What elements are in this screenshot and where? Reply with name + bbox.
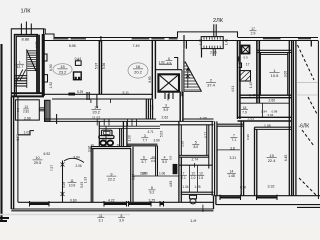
svg-text:2.1: 2.1 — [181, 176, 186, 180]
svg-text:2ЛК: 2ЛК — [213, 18, 224, 24]
svg-text:3.65: 3.65 — [283, 71, 287, 78]
window ticks on 1LK bay top — [21, 22, 31, 35]
svg-text:37.4: 37.4 — [207, 83, 216, 88]
svg-text:0.60: 0.60 — [70, 198, 77, 202]
stair bay 1LK jog to main wall — [44, 29, 55, 38]
svg-text:8.84: 8.84 — [74, 155, 80, 159]
svg-text:17: 17 — [251, 27, 255, 31]
svg-text:5.9: 5.9 — [164, 108, 169, 112]
room 15 ellipse — [53, 64, 72, 75]
svg-text:9.2: 9.2 — [150, 191, 155, 195]
bottom right window b — [257, 196, 278, 198]
bay room label — [15, 61, 24, 70]
room 19 top wall — [255, 127, 292, 129]
svg-text:1.0: 1.0 — [150, 105, 154, 110]
svg-text:14: 14 — [94, 106, 98, 110]
room 19 left wall — [255, 127, 257, 196]
svg-text:8: 8 — [121, 214, 123, 218]
svg-text:2.74: 2.74 — [192, 158, 199, 162]
svg-text:6.7: 6.7 — [142, 160, 147, 164]
bathroom east wall — [123, 121, 127, 146]
svg-text:10: 10 — [91, 143, 95, 147]
wc cell dividers — [190, 165, 198, 192]
dashed diagonal neighbour 2 — [308, 97, 317, 114]
stair bay 1LK right wall — [37, 35, 39, 93]
bathroom west wall — [98, 121, 100, 146]
scan edge artifact left — [0, 44, 2, 222]
tiny 10-0.9 — [150, 155, 156, 163]
room 14 label — [91, 106, 101, 115]
room 1 label — [269, 68, 279, 78]
elevator hall dim line — [159, 63, 172, 65]
block left wall — [179, 121, 181, 202]
scan artifact bottom-left corner — [0, 218, 9, 221]
svg-text:0.9: 0.9 — [151, 159, 156, 163]
col room 7.1 label — [230, 134, 237, 143]
building interior east wall — [289, 41, 291, 196]
stair 1LK lower flight treads — [15, 76, 27, 86]
svg-text:7.9: 7.9 — [242, 110, 247, 114]
room 4 label — [161, 156, 168, 165]
room 16 ellipse — [128, 63, 148, 78]
svg-text:5.97: 5.97 — [94, 63, 98, 70]
svg-text:5.98: 5.98 — [69, 44, 76, 48]
svg-text:0.47: 0.47 — [249, 94, 256, 98]
stair bay 1LK inner thick walls — [15, 35, 39, 96]
svg-text:0.9: 0.9 — [168, 156, 172, 161]
vestibule lower ticks — [213, 49, 215, 56]
main stair treads — [185, 63, 201, 90]
svg-text:3.75: 3.75 — [149, 198, 156, 202]
wc 13 label — [198, 172, 205, 180]
stair bay inner wall top — [184, 35, 202, 58]
bottom wall left span outer — [11, 209, 213, 211]
rooms 4-5 block top wall — [160, 124, 214, 126]
neighbour right edge line — [317, 41, 319, 200]
window midlines white — [53, 38, 311, 40]
svg-text:1: 1 — [19, 61, 21, 65]
room 9 left wall — [91, 147, 93, 203]
room 15 label — [57, 64, 67, 74]
small box 2 in room 15 — [74, 72, 82, 80]
small box in room 15 — [75, 61, 81, 66]
svg-text:1.92: 1.92 — [159, 61, 165, 65]
svg-text:3.32: 3.32 — [268, 184, 275, 188]
stair bay 1LK outer thin outline — [11, 29, 43, 97]
room 10 label — [33, 156, 43, 165]
svg-text:0.80: 0.80 — [16, 134, 20, 140]
bottom wall window ticks — [30, 201, 164, 207]
bottom wall left span inner — [18, 201, 214, 203]
svg-text:6.92: 6.92 — [44, 152, 51, 156]
svg-text:1.25: 1.25 — [194, 185, 200, 189]
svg-text:1.45: 1.45 — [249, 82, 253, 88]
dashed diagonal neighbour 4 — [299, 178, 317, 196]
svg-text:4.20: 4.20 — [200, 116, 207, 120]
dashed diagonal neighbour 1 — [298, 45, 315, 80]
door tick col17 — [239, 57, 242, 68]
bathroom mid divider — [105, 126, 107, 146]
middle column partition — [217, 149, 240, 151]
door arc room 10 — [64, 158, 84, 162]
top wall window 2 — [71, 38, 86, 41]
main wing left wall pair — [43, 34, 45, 96]
room 7.7 label — [141, 134, 148, 143]
hatched shaft left corridor — [45, 100, 51, 121]
svg-text:6.45: 6.45 — [284, 155, 288, 162]
stair 1LK break marks — [17, 70, 26, 81]
top wall window 6 — [263, 38, 280, 41]
svg-text:4.91: 4.91 — [231, 86, 235, 92]
top wall window 7 — [298, 38, 311, 41]
bottom wall window d — [160, 203, 164, 205]
bottom right window ticks — [220, 195, 277, 200]
bathroom door ticks — [128, 119, 137, 127]
room 16 right wall — [152, 41, 155, 99]
bath row bottom wall — [238, 117, 292, 121]
wc cells top wall — [179, 164, 212, 166]
svg-text:12.7: 12.7 — [16, 65, 23, 69]
svg-text:29.5: 29.5 — [34, 161, 41, 165]
room 2 right wall — [238, 41, 240, 120]
svg-text:3.8: 3.8 — [230, 146, 235, 150]
hall frac — [166, 57, 173, 65]
svg-text:3: 3 — [144, 134, 146, 138]
top wall tick at room divider — [100, 36, 102, 42]
stair 1LK upper flight treads — [27, 51, 36, 71]
svg-text:0.90: 0.90 — [240, 185, 246, 189]
corridor south wall lines — [44, 119, 160, 121]
bottom wall right span outer — [216, 205, 320, 208]
svg-text:17: 17 — [246, 63, 250, 67]
middle column top wall — [217, 124, 244, 126]
elevator shaft 2LK — [158, 74, 179, 91]
svg-text:10.9: 10.9 — [69, 183, 76, 187]
toilet small bowl — [190, 199, 196, 204]
room 1 bottom wall — [240, 95, 292, 98]
room 15 / room 16 divider wall — [99, 41, 101, 95]
svg-text:2.9: 2.9 — [251, 32, 256, 36]
room B (small room under bay) — [15, 100, 39, 120]
svg-text:1ЛК: 1ЛК — [21, 9, 32, 15]
left wall inner line — [17, 97, 19, 202]
svg-text:8.86: 8.86 — [22, 36, 31, 41]
svg-text:1.94: 1.94 — [261, 110, 267, 114]
wc top tick — [194, 163, 196, 168]
toilet small cistern — [190, 195, 197, 199]
room 3 bottom wall — [127, 144, 158, 146]
svg-text:-6ЛК: -6ЛК — [299, 124, 310, 130]
svg-text:0.44: 0.44 — [75, 57, 82, 61]
main stair 2LK left edge — [183, 49, 185, 92]
col room 1.48 label — [227, 170, 236, 179]
svg-text:2.00: 2.00 — [142, 171, 148, 175]
main top wall lower line — [44, 40, 318, 42]
wc 7 label — [180, 172, 187, 180]
corridor-east wall jog — [146, 99, 152, 119]
svg-text:3.28: 3.28 — [62, 182, 66, 188]
room 19 col left wall — [241, 121, 243, 196]
svg-text:1.02: 1.02 — [24, 131, 31, 135]
svg-text:2.62: 2.62 — [162, 115, 169, 119]
svg-text:20.2: 20.2 — [134, 69, 143, 74]
svg-text:2.60: 2.60 — [269, 99, 276, 103]
elevator 17 shaft box — [242, 46, 250, 54]
svg-text:4.83: 4.83 — [169, 181, 173, 187]
svg-text:11.97: 11.97 — [92, 116, 100, 120]
svg-text:3.90: 3.90 — [154, 139, 160, 143]
svg-text:1-Н: 1-Н — [190, 218, 197, 223]
svg-text:4.22: 4.22 — [108, 198, 115, 202]
door tick x168 — [167, 94, 169, 101]
wc 12 label — [190, 172, 197, 180]
svg-text:7.1: 7.1 — [232, 138, 237, 142]
svg-text:8.0: 8.0 — [193, 145, 198, 149]
svg-text:4.71: 4.71 — [148, 130, 154, 134]
middle column inner outline — [216, 126, 218, 196]
svg-text:18: 18 — [243, 106, 247, 110]
svg-text:3.21: 3.21 — [230, 156, 237, 160]
svg-text:22.2: 22.2 — [108, 177, 115, 181]
svg-text:10: 10 — [35, 156, 39, 160]
room 1 inner outline — [260, 53, 287, 96]
main bath toilet cistern — [102, 130, 113, 135]
bottom wall window c — [129, 203, 152, 205]
main stair diagonal — [185, 62, 202, 92]
svg-text:6: 6 — [143, 156, 145, 160]
wet cell east wall — [120, 128, 122, 146]
bottom right window a — [220, 196, 241, 198]
svg-text:1.30: 1.30 — [199, 39, 203, 45]
room 6/4 divider — [156, 146, 158, 176]
corridor north wall line L1 — [44, 93, 152, 95]
svg-text:3.26: 3.26 — [181, 141, 185, 147]
room 19 label — [267, 153, 277, 163]
room 15 west wall niche upper — [44, 54, 47, 61]
bottom wall right span inner — [214, 195, 320, 197]
room 18 label — [241, 106, 248, 115]
svg-text:1.52: 1.52 — [49, 82, 53, 89]
svg-text:8: 8 — [151, 186, 153, 190]
room 6 label — [140, 156, 147, 165]
room B frac — [23, 105, 29, 113]
bottom wall step — [214, 196, 216, 209]
balcony 11 label — [97, 214, 104, 223]
svg-text:6.93: 6.93 — [49, 64, 53, 71]
room 11 label — [68, 179, 77, 188]
bath row divider under room1 — [240, 102, 289, 104]
svg-text:14: 14 — [230, 170, 234, 174]
svg-text:0.9: 0.9 — [16, 108, 20, 113]
unit leader line 1-N — [202, 205, 204, 212]
door hatch right of room B — [39, 108, 45, 111]
bottom wall window a — [30, 203, 50, 205]
main bath twin basin — [100, 141, 106, 146]
room 1 top wall — [257, 50, 292, 52]
2LK vestibule rect with comb ticks — [201, 37, 223, 49]
svg-text:5.36: 5.36 — [102, 63, 106, 70]
bathroom north wall — [99, 126, 160, 128]
svg-text:9.76: 9.76 — [35, 41, 39, 48]
stair bay 2LK thin outline — [178, 32, 238, 38]
room 9 top wall — [91, 147, 131, 149]
svg-text:7: 7 — [233, 134, 235, 138]
stair bay 1LK bottom wall — [11, 93, 44, 96]
room 3 label — [162, 104, 169, 112]
dark lintel block on L1 — [68, 93, 75, 96]
svg-text:5.0: 5.0 — [162, 160, 167, 164]
stair 1LK mid divider — [26, 50, 28, 89]
svg-text:23.2: 23.2 — [59, 69, 68, 74]
room 8 top line — [133, 175, 179, 177]
svg-text:3.27: 3.27 — [131, 174, 135, 180]
room 2 left wall — [180, 92, 183, 122]
room 10 partition with door marks — [62, 161, 64, 203]
wall right of shaft 17 — [257, 41, 259, 104]
svg-text:3.04: 3.04 — [268, 113, 274, 117]
room 2 bottom wall — [160, 119, 214, 121]
middle column room walls — [212, 121, 217, 195]
building outer east wall — [293, 41, 296, 196]
svg-text:7.7: 7.7 — [142, 139, 147, 143]
svg-text:1.34: 1.34 — [182, 185, 188, 189]
door frame ticks on corridor north wall — [87, 92, 97, 108]
svg-text:1.40: 1.40 — [224, 39, 228, 45]
svg-text:8.85: 8.85 — [148, 76, 152, 82]
room 5 bottom wall — [179, 155, 209, 157]
top wall window 3 — [132, 38, 150, 41]
room 5 rect — [181, 125, 209, 169]
hatched duct box — [240, 71, 251, 81]
bottom wall window b — [104, 203, 127, 205]
svg-text:1.48: 1.48 — [228, 174, 235, 178]
svg-text:0.9: 0.9 — [244, 56, 249, 60]
top wall window 5 — [169, 38, 178, 41]
dashed diagonal neighbour 3 — [302, 130, 314, 146]
svg-text:1.90: 1.90 — [127, 135, 131, 141]
svg-text:1.5: 1.5 — [199, 176, 204, 180]
stair 1LK upper flight diagonal — [27, 50, 37, 72]
room 16 label — [133, 64, 143, 74]
left wall below bay outer lines — [11, 97, 13, 209]
svg-text:10.5: 10.5 — [271, 73, 280, 78]
svg-text:7.27: 7.27 — [50, 165, 54, 171]
svg-text:5.11: 5.11 — [123, 91, 129, 95]
svg-text:20.2: 20.2 — [93, 111, 100, 115]
main top wall upper line — [54, 37, 318, 39]
corridor wall ticks near room14 — [91, 99, 111, 126]
window ticks on 2LK bay — [214, 24, 216, 37]
svg-text:4: 4 — [164, 156, 166, 160]
elevator hall top corner — [174, 58, 178, 70]
room 5 label — [192, 141, 199, 150]
svg-text:5.03: 5.03 — [160, 131, 164, 137]
corridor door tick left — [56, 114, 58, 124]
svg-text:5: 5 — [195, 141, 197, 145]
left wall notch step — [18, 131, 34, 135]
room 15 west wall niche lower — [44, 75, 48, 82]
main stair arrow — [186, 68, 190, 88]
svg-text:2.06: 2.06 — [76, 164, 82, 168]
svg-text:5.29: 5.29 — [77, 90, 83, 94]
svg-text:3.9: 3.9 — [119, 218, 124, 222]
svg-text:1.0: 1.0 — [191, 176, 196, 180]
room 9 label — [107, 172, 117, 181]
room 2 label — [206, 78, 216, 88]
top wall window 1 — [53, 38, 68, 41]
main bath toilet bowl — [99, 136, 114, 139]
svg-text:2.63: 2.63 — [248, 117, 255, 121]
svg-text:2.99: 2.99 — [24, 117, 31, 121]
svg-text:1.93: 1.93 — [83, 177, 87, 183]
svg-text:9: 9 — [110, 172, 112, 176]
svg-text:22.4: 22.4 — [268, 158, 277, 163]
svg-text:7.49: 7.49 — [133, 44, 140, 48]
svg-text:1.06: 1.06 — [159, 171, 165, 175]
room 8 label — [148, 186, 155, 195]
svg-text:2.81: 2.81 — [23, 110, 29, 114]
label 17-2.9 — [250, 27, 257, 35]
stair bottom line — [184, 91, 202, 93]
elevator door comb — [165, 93, 173, 99]
svg-text:3.1: 3.1 — [98, 218, 103, 222]
elevator enclosure — [155, 70, 182, 97]
room 9 right wall — [131, 147, 133, 203]
svg-text:11: 11 — [70, 179, 74, 183]
top wall window 4 — [151, 38, 164, 41]
balcony 8 label — [118, 214, 125, 223]
svg-text:4.9: 4.9 — [167, 61, 172, 65]
svg-text:1.08: 1.08 — [264, 124, 271, 128]
scan smudge bottom — [0, 214, 130, 216]
shaft cluster dark — [173, 164, 178, 174]
faint pencil line a — [296, 82, 318, 84]
svg-text:2.95: 2.95 — [210, 50, 217, 54]
svg-text:0.90: 0.90 — [246, 134, 250, 140]
svg-text:11: 11 — [99, 214, 103, 218]
faint pencil line b — [296, 94, 318, 96]
wc cells bottom wall — [181, 192, 214, 194]
svg-text:0.77: 0.77 — [204, 132, 208, 138]
top-right partition stub — [310, 41, 312, 47]
corridor north wall line L2 — [52, 98, 152, 100]
